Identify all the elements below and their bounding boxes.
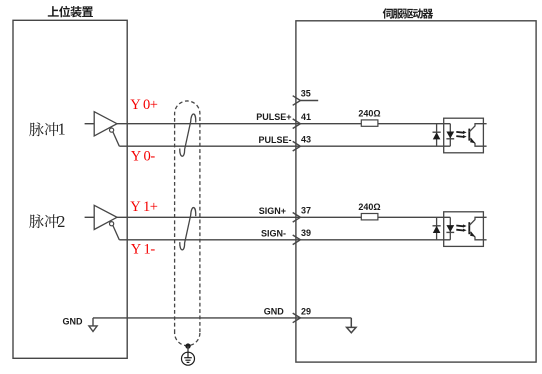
- wire SIGN+ line: [117, 216, 450, 218]
- wire dot to PE: [187, 346, 189, 352]
- phototransistor: [468, 129, 470, 141]
- host device box 上位装置: [13, 20, 127, 358]
- svg-text:Y 1+: Y 1+: [130, 199, 158, 215]
- opto LED: [449, 124, 451, 147]
- GND pin chevron 29: [293, 313, 301, 323]
- pin 35 chevron: [293, 96, 301, 106]
- svg-text:PULSE-: PULSE-: [258, 135, 291, 145]
- svg-text:41: 41: [301, 112, 311, 122]
- wire SIGN- line: [119, 239, 450, 241]
- inverting output bubble: [110, 128, 114, 132]
- svg-text:39: 39: [301, 228, 311, 238]
- resistor 240R: [361, 120, 378, 126]
- connector pin chevron: [293, 119, 301, 129]
- svg-text:Y 0-: Y 0-: [131, 149, 156, 165]
- wire inverted output diagonal: [113, 132, 119, 146]
- shield junction dot: [185, 343, 190, 348]
- optocoupler box: [444, 118, 484, 153]
- svg-text:37: 37: [301, 206, 311, 216]
- svg-text:29: 29: [301, 306, 311, 316]
- cable shield dashed outline: [175, 101, 200, 333]
- wire driver input: [85, 216, 95, 218]
- protection diode branch: [436, 124, 438, 147]
- svg-text:240Ω: 240Ω: [358, 202, 380, 212]
- line driver buffer triangle: [94, 112, 117, 136]
- protection diode branch: [436, 217, 438, 240]
- optocoupler box: [444, 212, 484, 247]
- resistor 240R: [361, 214, 378, 220]
- pin 35 stub wire: [300, 100, 318, 102]
- svg-text:GND: GND: [63, 316, 84, 326]
- light arrows: [456, 131, 463, 134]
- svg-text:Y 0+: Y 0+: [130, 97, 158, 113]
- title 上位装置: [48, 6, 93, 18]
- title 伺服驱动器: [383, 8, 434, 18]
- wire PULSE+ line: [117, 123, 450, 125]
- twisted-pair squiggle: [180, 208, 196, 250]
- svg-text:43: 43: [301, 135, 311, 145]
- GND right drop: [350, 318, 352, 327]
- twisted-pair squiggle: [180, 114, 196, 156]
- connector pin chevron: [293, 141, 301, 151]
- svg-text:2: 2: [57, 212, 65, 231]
- protective earth symbol: [182, 352, 195, 365]
- wire driver input: [85, 123, 95, 125]
- wire PULSE- line: [119, 145, 450, 147]
- phototransistor: [468, 222, 470, 234]
- GND right arrow (signal ground): [347, 327, 356, 332]
- svg-text:1: 1: [58, 120, 66, 139]
- svg-text:240Ω: 240Ω: [358, 108, 380, 118]
- label 脉冲2: [29, 214, 58, 228]
- svg-text:35: 35: [301, 89, 311, 99]
- svg-text:Y 1-: Y 1-: [131, 241, 156, 257]
- svg-text:PULSE+: PULSE+: [256, 112, 291, 122]
- line driver buffer triangle: [94, 205, 117, 229]
- servo drive box 伺服驱动器: [296, 21, 536, 362]
- GND wire: [93, 317, 351, 319]
- shield bottom arc: [175, 333, 200, 346]
- connector pin chevron: [293, 235, 301, 245]
- emitter arrow: [470, 138, 475, 143]
- opto LED: [449, 217, 451, 240]
- svg-text:SIGN+: SIGN+: [259, 206, 286, 216]
- GND left drop: [92, 318, 94, 326]
- light arrows: [456, 225, 463, 228]
- svg-text:SIGN-: SIGN-: [261, 229, 286, 239]
- GND left arrow (signal ground): [89, 326, 97, 332]
- label 脉冲1: [29, 122, 58, 136]
- emitter arrow: [470, 232, 475, 237]
- connector pin chevron: [293, 213, 301, 223]
- svg-text:GND: GND: [264, 306, 285, 316]
- wire inverted output diagonal: [113, 226, 119, 240]
- inverting output bubble: [110, 222, 114, 226]
